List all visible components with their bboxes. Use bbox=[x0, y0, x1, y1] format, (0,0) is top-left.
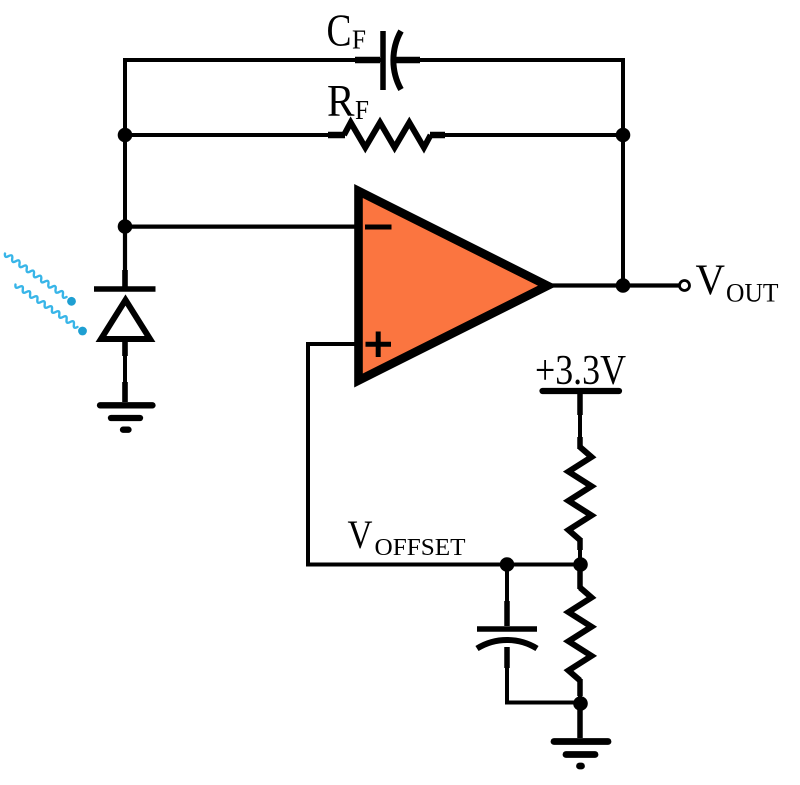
wire left rail vertical bbox=[123, 58, 127, 285]
photodiode D1 cathode bar bbox=[94, 286, 156, 292]
ground left bar3 bbox=[123, 427, 129, 433]
wire top CF branch left bbox=[125, 58, 381, 62]
photon arrow 2 bbox=[15, 285, 77, 328]
junction node (507,564.5) bbox=[500, 557, 515, 572]
junction node (580.5,564.5) bbox=[573, 557, 588, 572]
capacitor CF lead stubs bbox=[355, 57, 420, 63]
resistor R1 lead stubs bbox=[577, 437, 583, 550]
svg-text:F: F bbox=[355, 95, 369, 125]
capacitor C2 lead stubs bbox=[504, 601, 510, 668]
ground right bar1 bbox=[554, 738, 608, 745]
wire non-inverting input loop bbox=[308, 344, 580, 565]
capacitor CF curved plate bbox=[393, 31, 401, 90]
ground right bar2 bbox=[566, 751, 595, 758]
wire inverting input bbox=[125, 225, 356, 229]
svg-text:F: F bbox=[352, 25, 366, 55]
svg-text:R: R bbox=[327, 75, 355, 126]
junction node (125,135) bbox=[118, 128, 133, 143]
junction node (623,135) bbox=[616, 128, 631, 143]
wire RF branch right bbox=[443, 133, 623, 137]
junction node (623,285.5) bbox=[616, 278, 631, 293]
svg-text:V: V bbox=[348, 512, 373, 557]
wire photodiode top lead bbox=[123, 226, 127, 286]
wire RF branch left bbox=[125, 133, 332, 137]
op-amp U1 body bbox=[359, 191, 548, 381]
output terminal circle bbox=[680, 281, 690, 291]
ground left bar2 bbox=[111, 415, 140, 421]
ground left bar1 bbox=[100, 402, 153, 408]
wire output bbox=[550, 283, 679, 287]
wire top CF branch right bbox=[398, 58, 623, 62]
wire C2 bottom lead bbox=[507, 650, 580, 703]
wire C2 top lead bbox=[505, 565, 509, 605]
junction node (580.5,703.5) bbox=[573, 696, 588, 711]
svg-text:V: V bbox=[696, 257, 726, 304]
svg-text:+3.3V: +3.3V bbox=[535, 348, 626, 394]
svg-text:C: C bbox=[327, 5, 352, 56]
photodiode D1 anode triangle bbox=[101, 300, 150, 339]
capacitor CF left plate bbox=[380, 31, 386, 90]
resistor R1 bbox=[569, 447, 592, 540]
photon arrow 1 bbox=[5, 254, 67, 298]
junction node (125,226) bbox=[118, 219, 133, 234]
photodiode lead thick stubs bbox=[122, 270, 128, 402]
wire R2 leads bbox=[578, 565, 582, 704]
svg-text:OUT: OUT bbox=[726, 279, 779, 308]
capacitor C2 curved plate bbox=[477, 640, 537, 649]
resistor R2 bbox=[569, 588, 592, 681]
op-amp minus sign bbox=[365, 225, 392, 230]
resistor RF bbox=[344, 123, 431, 148]
op-amp plus sign bbox=[366, 332, 392, 358]
wire ground stub right bbox=[577, 704, 583, 739]
wire photodiode bottom lead bbox=[123, 341, 127, 402]
supply stub thick bbox=[577, 391, 583, 415]
svg-text:OFFSET: OFFSET bbox=[375, 535, 466, 561]
resistor RF lead stubs bbox=[328, 132, 445, 138]
wire supply stub bbox=[578, 391, 582, 447]
wire right vertical feedback bbox=[621, 58, 625, 286]
photon arrow 2 dot bbox=[78, 327, 87, 336]
capacitor C2 top plate bbox=[477, 626, 537, 632]
ground right bar3 bbox=[580, 763, 582, 770]
wire R1 bottom lead bbox=[578, 540, 582, 565]
supply +3.3V bar bbox=[543, 388, 620, 394]
resistor R2 lead stubs bbox=[577, 568, 583, 696]
photon arrow 1 dot bbox=[67, 297, 76, 306]
